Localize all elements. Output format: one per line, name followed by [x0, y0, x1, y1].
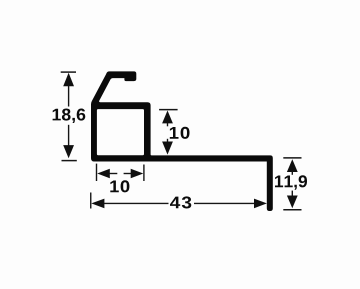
h10 right extension line: [143, 165, 145, 182]
v10 top tick: [159, 109, 178, 111]
h10 right arrow: [131, 169, 144, 178]
v10 line upper segment: [167, 123, 169, 127]
h10 left extension line: [96, 164, 98, 181]
h10 line: [110, 173, 118, 175]
dimension 11,9 (right vertical): [283, 158, 301, 210]
43 right arrow: [254, 199, 267, 209]
43 left extension line: [90, 193, 92, 209]
v10 up arrow: [162, 111, 173, 124]
18,6 line upper segment: [68, 86, 70, 107]
v10 down arrow: [162, 142, 173, 155]
11,9 up arrow: [287, 159, 298, 172]
11,9 line lower segment: [291, 191, 293, 197]
18,6 up arrow: [63, 73, 74, 86]
43 line left segment: [104, 202, 169, 204]
h10 left arrow: [97, 169, 110, 178]
label 18,6: [53, 109, 86, 124]
18,6 top tick: [61, 71, 76, 73]
label 10 horizontal: [110, 180, 129, 192]
18,6 line lower segment: [68, 125, 70, 147]
11,9 top tick: [283, 157, 301, 159]
11,9 line upper segment: [291, 172, 293, 175]
43 left arrow: [91, 199, 104, 209]
dimension 10 (vertical, right of box): [159, 110, 178, 155]
label 11,9: [275, 175, 307, 190]
profile cross-section outline: [91, 71, 273, 211]
11,9 down arrow: [287, 196, 298, 209]
v10 line lower segment: [167, 139, 169, 142]
dimension 43 (horizontal): [91, 193, 267, 209]
label 10 vertical: [170, 127, 190, 139]
dimension 10 (horizontal, below box): [97, 164, 144, 181]
43 line right segment: [194, 202, 255, 204]
18,6 bottom tick: [62, 160, 77, 162]
h10 line right part: [124, 173, 131, 175]
label 43: [170, 196, 191, 208]
18,6 down arrow: [63, 145, 74, 158]
dimension 18,6 (left vertical): [61, 72, 77, 161]
11,9 bottom tick: [283, 209, 301, 211]
